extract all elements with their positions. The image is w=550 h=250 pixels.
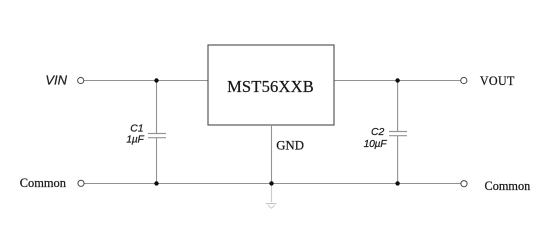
svg-text:VIN: VIN <box>45 73 67 88</box>
svg-text:GND: GND <box>276 139 304 153</box>
svg-text:C1: C1 <box>130 123 143 134</box>
svg-text:Common: Common <box>20 176 66 190</box>
svg-text:C2: C2 <box>371 127 385 138</box>
svg-text:Common: Common <box>485 179 531 193</box>
svg-text:VOUT: VOUT <box>480 74 515 88</box>
svg-text:MST56XXB: MST56XXB <box>227 77 314 96</box>
svg-text:1µF: 1µF <box>126 134 144 145</box>
svg-text:10µF: 10µF <box>364 139 388 150</box>
